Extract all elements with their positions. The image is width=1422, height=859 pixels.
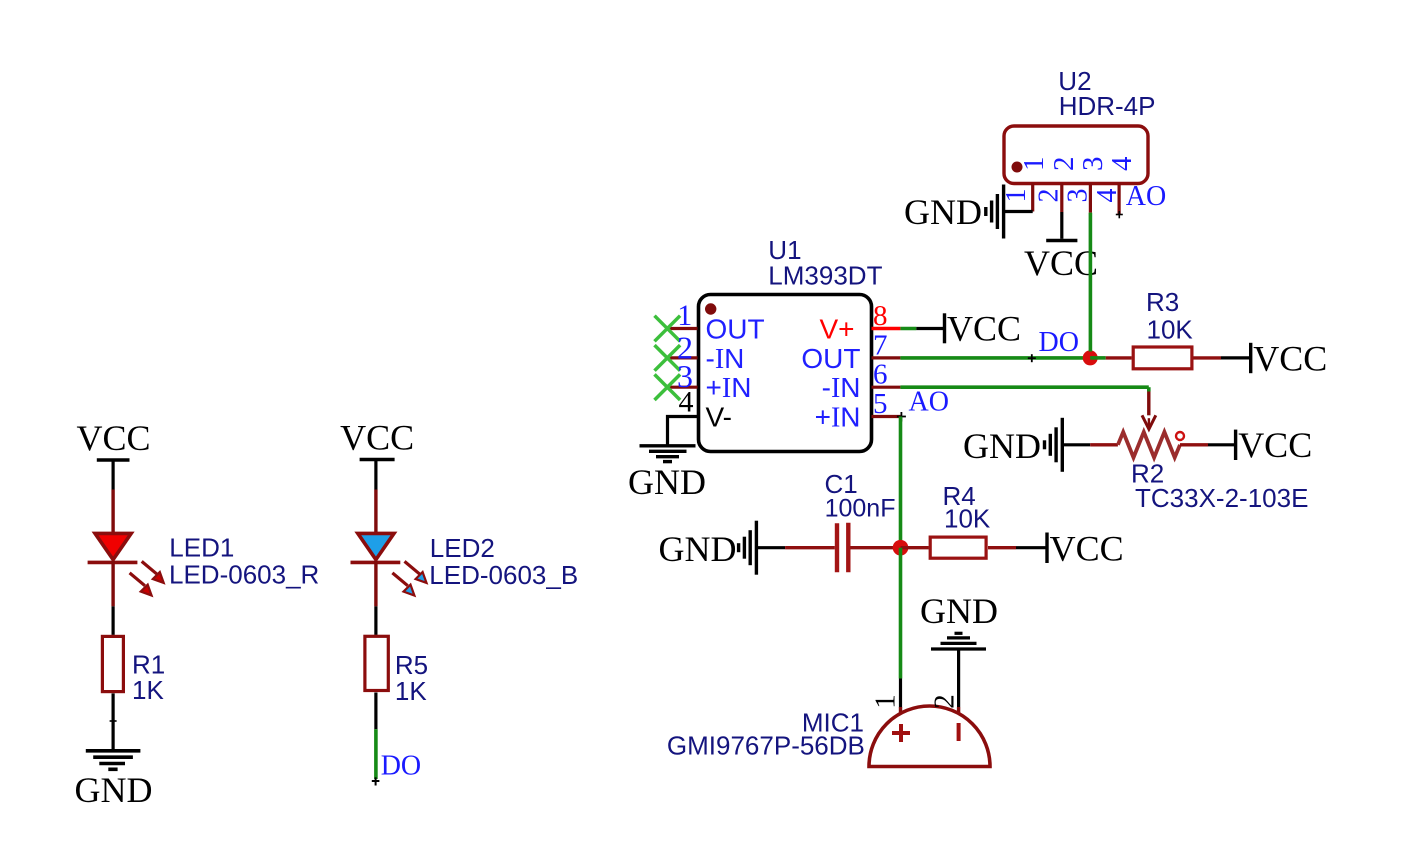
svg-text:VCC: VCC	[947, 309, 1021, 349]
wire ground to R2	[1062, 443, 1118, 446]
wire R2 to VCC	[1180, 443, 1234, 446]
no-connect X pin 3	[655, 374, 681, 400]
wire net AO (pin 5 down to C1 junction)	[899, 417, 903, 542]
svg-text:4: 4	[1092, 189, 1123, 203]
pin 1 marker dot U2	[1012, 162, 1023, 173]
op-amp U1 body	[699, 295, 872, 452]
wire LED2 to R5	[374, 561, 377, 635]
svg-text:3: 3	[1077, 157, 1109, 172]
junction dot DO	[1083, 350, 1098, 365]
svg-text:4: 4	[679, 386, 694, 419]
svg-text:3: 3	[1063, 189, 1094, 203]
svg-text:+IN: +IN	[815, 401, 861, 433]
wire R1 to ground	[110, 693, 117, 750]
svg-text:GND: GND	[963, 426, 1041, 466]
svg-text:VCC: VCC	[1024, 243, 1098, 283]
wire junction to R4	[901, 546, 929, 549]
svg-text:1K: 1K	[395, 676, 427, 706]
ground (U2 pin 1)	[904, 185, 1004, 239]
wire R5 to net DO	[372, 693, 380, 786]
svg-text:+IN: +IN	[706, 372, 752, 404]
svg-text:1: 1	[1001, 189, 1032, 203]
wire R3 to VCC	[1194, 356, 1250, 359]
no-connect X pin 1	[655, 316, 681, 342]
ground (below R1)	[75, 751, 153, 810]
power flag VCC (LED1 branch)	[76, 418, 150, 460]
power flag VCC (U1 pin 8)	[945, 309, 1022, 349]
svg-text:VCC: VCC	[76, 418, 150, 458]
svg-text:VCC: VCC	[340, 418, 414, 458]
LED LED1	[88, 533, 164, 595]
capacitor C1	[837, 523, 848, 573]
svg-text:GND: GND	[75, 770, 153, 810]
svg-text:AO: AO	[909, 387, 949, 418]
wire pin 6 to R2 wiper	[900, 387, 1148, 391]
resistor R1	[102, 636, 123, 691]
svg-text:100nF: 100nF	[825, 495, 896, 523]
resistor R3	[1133, 347, 1192, 369]
wire pin 4 to ground	[668, 417, 698, 447]
pin 3 stub U2	[1089, 183, 1092, 212]
wire segment tick on DO	[1028, 354, 1036, 362]
wire pin 2 U2 to VCC	[1060, 212, 1063, 239]
junction dot AO	[893, 540, 909, 556]
power flag VCC (LED2 branch)	[340, 418, 414, 460]
svg-text:VCC: VCC	[1050, 528, 1124, 568]
wire pin 8 to VCC	[900, 327, 943, 331]
ground (R2 left)	[963, 418, 1062, 472]
resistor R5	[365, 636, 388, 690]
header U2 body	[1004, 126, 1148, 184]
svg-text:GND: GND	[659, 529, 737, 569]
svg-text:2: 2	[928, 694, 960, 709]
svg-text:HDR-4P: HDR-4P	[1059, 91, 1156, 121]
wire C1 to junction	[851, 546, 894, 549]
pin 4 stub U2	[1117, 183, 1120, 215]
wire ground to C1	[756, 546, 834, 549]
wire end tick pin 4 U2	[1116, 211, 1123, 218]
wiper arrow of R2	[1142, 392, 1156, 430]
svg-text:GND: GND	[628, 462, 706, 502]
resistor R4	[930, 537, 986, 558]
svg-text:LM393DT: LM393DT	[768, 261, 882, 291]
pin 7 stub U1	[872, 356, 901, 359]
svg-text:10K: 10K	[944, 504, 991, 534]
svg-text:GND: GND	[904, 192, 982, 232]
svg-text:LED-0603_B: LED-0603_B	[429, 560, 578, 590]
svg-text:10K: 10K	[1147, 315, 1194, 345]
svg-text:AO: AO	[1126, 181, 1166, 212]
wire segment tick at pin 5	[897, 412, 906, 422]
power flag VCC (R4)	[1047, 528, 1124, 568]
svg-text:DO: DO	[1039, 327, 1079, 358]
wire R4 to VCC	[988, 546, 1046, 549]
svg-text:LED1: LED1	[169, 533, 234, 563]
svg-text:2: 2	[1034, 189, 1065, 203]
svg-text:VCC: VCC	[1238, 425, 1312, 465]
pin 1 marker dot U1	[705, 303, 716, 314]
svg-text:LED2: LED2	[430, 533, 495, 563]
svg-text:1: 1	[677, 299, 692, 332]
wire junction to R3	[1090, 356, 1131, 360]
wire net DO (pin 7 to junction)	[900, 356, 1084, 360]
svg-text:1: 1	[870, 694, 902, 709]
svg-text:VCC: VCC	[1253, 338, 1327, 378]
pin 2 stub U1	[667, 356, 697, 359]
wire net AO (junction down to MIC1)	[899, 548, 903, 717]
pin 8 stub (red)	[872, 327, 901, 330]
pin 3 stub U1	[667, 386, 697, 389]
potentiometer R2	[1118, 432, 1184, 458]
ground (C1 left)	[659, 521, 757, 575]
ground (MIC1 pin 2, inverted)	[920, 591, 998, 649]
svg-text:DO: DO	[381, 751, 421, 782]
wire ground to MIC1 pin 2	[957, 649, 960, 717]
svg-text:GMI9767P-56DB: GMI9767P-56DB	[667, 730, 865, 760]
pin 1 stub U1	[667, 327, 697, 330]
pin 2 stub U2	[1060, 183, 1063, 212]
pin 1 stub U2	[1031, 183, 1034, 211]
wire VCC to LED1	[111, 460, 114, 533]
LED LED2	[351, 533, 427, 595]
svg-text:GND: GND	[920, 591, 998, 631]
microphone MIC1	[869, 706, 990, 767]
svg-text:2: 2	[1048, 157, 1080, 172]
svg-text:V-: V-	[706, 401, 732, 432]
svg-text:LED-0603_R: LED-0603_R	[169, 560, 319, 590]
wire LED1 to R1	[111, 561, 114, 635]
pin 6 stub U1	[872, 386, 901, 389]
svg-text:V+: V+	[819, 313, 854, 344]
wire VCC to LED2	[374, 460, 377, 534]
svg-text:1K: 1K	[132, 675, 164, 705]
svg-text:R3: R3	[1146, 287, 1179, 317]
svg-text:4: 4	[1106, 156, 1138, 171]
svg-text:1: 1	[1018, 157, 1050, 172]
svg-text:TC33X-2-103E: TC33X-2-103E	[1135, 483, 1308, 513]
svg-text:OUT: OUT	[801, 343, 860, 374]
power flag VCC (R2)	[1236, 425, 1313, 465]
wire pin 1 U2 to ground	[1004, 210, 1033, 213]
power flag VCC (U2 pin 2, pointing down)	[1024, 241, 1098, 283]
svg-text:-IN: -IN	[706, 343, 745, 375]
wire net DO (U2 pin 3 down to junction)	[1089, 213, 1093, 352]
svg-text:-IN: -IN	[822, 372, 861, 404]
no-connect X pin 2	[655, 345, 681, 371]
svg-text:OUT: OUT	[706, 313, 765, 344]
power flag VCC (R3)	[1251, 338, 1328, 378]
ground (U1 pin 4)	[628, 446, 706, 502]
pin 5 stub U1	[872, 415, 901, 418]
